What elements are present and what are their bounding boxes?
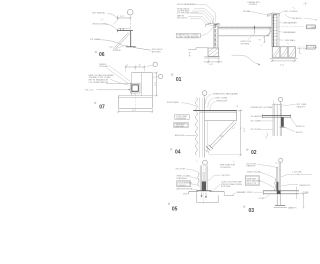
detail 07 lower leader arrow — [97, 89, 128, 91]
svg-text:ROOF MEMBRANE: ROOF MEMBRANE — [177, 3, 196, 6]
svg-text:2'-6": 2'-6" — [244, 128, 246, 132]
svg-text:WD BLOCKING: WD BLOCKING — [93, 24, 108, 26]
svg-text:STL ANGLE: STL ANGLE — [251, 115, 263, 118]
detail 01 left wall hatch — [214, 25, 219, 47]
detail 05 grade left — [183, 192, 189, 194]
detail 03 keynote bubble — [279, 158, 283, 162]
detail 01 left footing base lines — [204, 57, 220, 58]
detail 02 stiffener base tick — [280, 126, 286, 128]
svg-text:1'-2": 1'-2" — [132, 110, 136, 112]
svg-text:8": 8" — [139, 65, 141, 67]
detail 04 diagonal strut — [210, 121, 237, 148]
svg-text:BOLTS: BOLTS — [296, 132, 303, 134]
detail 07 plan left edge — [117, 96, 119, 109]
svg-text:EXIST WALL: EXIST WALL — [167, 101, 180, 104]
svg-text:MEMBRANE: MEMBRANE — [284, 31, 297, 34]
svg-text:04: 04 — [175, 149, 181, 155]
detail 02 post — [273, 105, 281, 136]
detail 02 break scallops — [266, 133, 268, 139]
detail 06 wood blocking — [118, 27, 131, 29]
detail 04 left boxed note 2 — [174, 122, 188, 127]
detail 06 steel web — [130, 31, 132, 47]
svg-text:STL PIPE: STL PIPE — [243, 192, 253, 194]
svg-text:CANOPY: CANOPY — [297, 105, 306, 108]
detail 05 sleeve lines below plate — [202, 192, 206, 196]
detail 06 steel top flange — [117, 30, 133, 32]
detail 07 plan right edge — [151, 73, 153, 109]
svg-text:2'-0": 2'-0" — [120, 16, 124, 18]
svg-text:ANCHOR RODS: ANCHOR RODS — [177, 187, 193, 190]
detail 04 canopy deck lower — [200, 111, 237, 113]
detail 03 post lower — [277, 194, 280, 205]
detail 01 top mid leader — [247, 11, 270, 15]
detail 03 cross arm end ticks — [263, 190, 265, 195]
svg-text:CMU WALL: CMU WALL — [285, 39, 297, 42]
detail 01 left bottom dim — [208, 58, 218, 63]
detail 06 dimension line — [118, 16, 131, 20]
detail 07 right dim — [155, 73, 157, 96]
detail 02 beam end ticks — [262, 114, 290, 118]
detail 06 keynote bubble — [127, 9, 133, 15]
svg-text:1/2" PROTECTION BD: 1/2" PROTECTION BD — [177, 12, 199, 14]
detail 07 plan verticals — [132, 73, 142, 96]
detail 01 left wall core — [214, 25, 216, 48]
detail 02 keynote bubble — [278, 97, 282, 101]
svg-text:ROD TYP: ROD TYP — [247, 183, 257, 185]
svg-text:07: 07 — [99, 104, 105, 110]
detail 01 right parapet coping — [268, 13, 280, 17]
detail 01 leaders from left labels — [196, 5, 216, 22]
detail 03 right upper leader — [281, 184, 298, 186]
svg-text:COL PENETRATION: COL PENETRATION — [89, 81, 109, 84]
detail 03 boxed note — [245, 176, 259, 186]
detail 06 leader 3 — [101, 40, 126, 47]
detail 01 cant strip — [267, 31, 272, 36]
svg-text:SSM ROOF: SSM ROOF — [216, 101, 228, 103]
detail 01 long curved leader — [232, 55, 259, 64]
detail 06 small leader top — [113, 20, 118, 24]
detail 01 hanger leader — [248, 33, 255, 39]
detail 01 bond beam hatch — [273, 47, 296, 57]
detail 05 trough — [197, 192, 218, 202]
detail 01 small tick — [261, 45, 263, 46]
svg-text:SSM BOOT: SSM BOOT — [299, 185, 311, 187]
detail 05 small mark — [196, 160, 198, 162]
detail 01 right wall joints — [272, 18, 278, 47]
svg-text:01: 01 — [176, 77, 182, 83]
detail 05 pedestal top right — [210, 191, 225, 193]
svg-text:4" MIN: 4" MIN — [302, 192, 309, 194]
detail 01 left parapet wall faces — [213, 24, 218, 48]
detail 05 keynote bubble — [203, 160, 208, 165]
detail 07 plan outline top — [132, 72, 153, 74]
detail 03 cross arm bottom — [264, 193, 300, 195]
detail 04 keynote bubble — [202, 91, 207, 96]
detail 04 canopy deck top — [193, 109, 236, 111]
detail 03 post upper — [277, 162, 281, 190]
detail 01 right label row 2 — [285, 15, 292, 18]
detail 06 deck line right — [133, 47, 151, 50]
detail 05 pedestal top left — [189, 191, 198, 193]
svg-text:T.O.WALL: T.O.WALL — [307, 26, 317, 29]
svg-text:1'-0": 1'-0" — [209, 64, 213, 66]
svg-text:SSM COLLAR: SSM COLLAR — [247, 170, 261, 173]
detail 04 right dim line — [240, 110, 242, 155]
svg-text:TYP: TYP — [109, 47, 114, 49]
svg-text:MTL FASCIA: MTL FASCIA — [93, 11, 106, 14]
svg-text:KICKER: KICKER — [113, 50, 121, 52]
detail 01 right coping blocking — [273, 14, 277, 16]
detail 01 title dot — [171, 74, 173, 76]
detail 02 right beam tick line — [291, 117, 296, 125]
detail 07 upper-left horizontal — [106, 83, 132, 85]
detail 07 top dim line — [126, 66, 145, 68]
svg-text:03: 03 — [249, 208, 255, 214]
detail 04 title dot — [170, 149, 172, 151]
svg-text:STL POST: STL POST — [176, 168, 187, 170]
detail 06 leader 2 — [106, 24, 118, 30]
detail 05 grade right — [224, 192, 234, 196]
detail 07 leader to right bubble — [153, 76, 159, 78]
detail 02 beam bottom — [262, 116, 291, 118]
detail 01 right footing dim — [272, 59, 294, 62]
detail 03 centre knot — [277, 190, 281, 194]
svg-text:BEYOND: BEYOND — [152, 51, 161, 53]
detail 01 left footing step flashing — [188, 48, 208, 50]
detail 04 canopy beam outline — [205, 110, 237, 120]
detail 01 right wall hatch — [272, 20, 277, 43]
detail 01 bond beam CMU — [272, 47, 295, 57]
detail 07 column outer flash square — [130, 83, 140, 93]
svg-text:FOR SIZE: FOR SIZE — [221, 186, 231, 188]
svg-text:ANCHOR: ANCHOR — [175, 134, 185, 137]
detail 01 deck fastener ticks — [222, 27, 268, 29]
detail 07 plan bottom edge — [118, 107, 152, 109]
svg-text:CONT CLEAT EA SIDE: CONT CLEAT EA SIDE — [177, 35, 199, 38]
svg-text:PREFIN MTL FASCIA AND: PREFIN MTL FASCIA AND — [213, 93, 238, 96]
detail 06 bottom flange — [126, 46, 136, 48]
detail 04 left boxed note 1 — [175, 115, 190, 120]
detail 01 top right specks — [292, 1, 307, 8]
svg-text:8": 8" — [237, 106, 239, 108]
detail 01 membrane at wall — [267, 27, 271, 36]
svg-text:STL BEAM: STL BEAM — [90, 38, 100, 41]
detail 07 title dot — [94, 102, 96, 104]
detail 03 base plate — [275, 204, 285, 206]
detail 05 title dot — [168, 203, 170, 205]
detail 05 anchor sleeve dark — [202, 181, 206, 190]
svg-text:SOLDER: SOLDER — [99, 66, 108, 68]
svg-text:1'-4": 1'-4" — [280, 64, 284, 66]
detail 04 wall ledger marks — [206, 150, 208, 153]
detail 07 column dark square — [132, 85, 138, 91]
svg-text:WD BLKG: WD BLKG — [292, 18, 302, 20]
detail 01 ceiling line — [218, 35, 269, 37]
detail 01 left CMU block — [208, 48, 218, 56]
detail 04 small v tick — [232, 127, 235, 129]
detail 03 title dot — [243, 206, 245, 208]
detail 01 boxed note — [176, 33, 200, 38]
svg-text:SYSTEM: SYSTEM — [241, 43, 250, 45]
svg-text:02: 02 — [251, 150, 257, 156]
detail 06 leader 1 — [108, 13, 118, 18]
svg-text:FLASHING: FLASHING — [177, 177, 188, 180]
detail 04 wall inner lines — [198, 98, 200, 158]
detail 04 wall face line — [204, 98, 206, 158]
detail 07 keynote bubble top — [153, 62, 157, 66]
detail 07 bottom dim — [118, 110, 152, 112]
svg-text:STL COL: STL COL — [85, 90, 94, 92]
detail 01 hanger mark — [254, 26, 256, 29]
detail 03 dark sleeve — [276, 182, 278, 191]
detail 02 post cap — [273, 103, 282, 105]
detail 06 centerline from bubble — [130, 15, 132, 30]
svg-text:CONT CLEAT: CONT CLEAT — [214, 97, 228, 100]
svg-text:TOP NUT: TOP NUT — [221, 175, 231, 177]
svg-text:SLOPE: SLOPE — [243, 11, 251, 13]
svg-text:8": 8" — [259, 40, 261, 42]
detail 03 right arm end vertical — [296, 187, 298, 199]
detail 05 base plate — [197, 190, 212, 192]
detail 03 right dim — [299, 192, 307, 194]
detail 05 post centerline — [203, 165, 205, 204]
svg-text:STIFF PL: STIFF PL — [296, 126, 306, 128]
detail 06 title dot — [95, 51, 97, 53]
svg-text:AIR BARRIER: AIR BARRIER — [284, 22, 298, 25]
detail 02 bubble stem — [280, 102, 282, 115]
svg-text:06: 06 — [99, 52, 105, 58]
detail 07 keynote bubble right — [158, 74, 162, 78]
svg-text:STL POST: STL POST — [251, 129, 262, 131]
svg-text:1'-2": 1'-2" — [155, 82, 157, 86]
detail 07 roof edge lines — [118, 96, 152, 98]
detail 04 bubble stem — [204, 96, 206, 110]
detail 07 column centerline — [134, 93, 136, 109]
detail 01 bond beam base — [270, 57, 298, 59]
svg-text:COPING: COPING — [249, 4, 258, 6]
detail 01 elevation marker 1 — [279, 26, 307, 28]
svg-text:05: 05 — [172, 207, 178, 213]
detail 01 elevation marker 2 — [298, 46, 307, 48]
detail 06 end plate — [116, 29, 118, 32]
detail 01 right of wall bracket — [297, 48, 302, 54]
svg-text:B.O.DECK: B.O.DECK — [307, 47, 318, 49]
detail 01 boxed note leader — [201, 27, 213, 36]
detail 07 note leader — [111, 79, 129, 85]
svg-text:1 1/2" DIA: 1 1/2" DIA — [292, 171, 302, 174]
detail 05 wavy flashing — [198, 172, 200, 185]
detail 03 wavy flashing — [275, 178, 276, 191]
svg-text:BASE PL: BASE PL — [288, 206, 298, 209]
detail 01 left CMU hatch — [208, 48, 218, 56]
svg-text:FLASHING: FLASHING — [176, 117, 187, 120]
detail 01 roof deck lines — [218, 26, 271, 28]
detail 02 beam top — [262, 115, 291, 117]
detail 06 diagonal kicker — [113, 32, 129, 49]
detail 06 dimension ticks — [117, 17, 132, 19]
detail 05 boxed note — [177, 181, 191, 187]
detail 06 title leader curve — [116, 46, 128, 49]
svg-text:6": 6" — [126, 65, 128, 67]
detail 07 leaders upper — [107, 66, 131, 84]
detail 04 wall break wavy edge — [196, 98, 198, 156]
svg-text:STL TUBE: STL TUBE — [251, 121, 261, 123]
svg-text:CONT: CONT — [259, 198, 266, 200]
detail 01 right parapet wall faces — [272, 14, 278, 47]
detail 04 strut lower connection — [206, 145, 213, 151]
svg-text:LOCATION: LOCATION — [220, 166, 231, 169]
detail 01 right wall dim — [263, 37, 265, 43]
svg-text:MTL COPING: MTL COPING — [285, 11, 298, 13]
svg-text:PAINTED: PAINTED — [247, 165, 256, 168]
detail 03 small tick near bubble — [275, 162, 278, 164]
detail 02 title dot — [247, 149, 249, 151]
detail 02 stiffener bar — [281, 117, 284, 126]
detail 05 post — [200, 165, 207, 190]
detail 04 dim bottom extension — [209, 154, 243, 156]
svg-text:TYP: TYP — [220, 136, 225, 138]
detail 03 cross arm top — [264, 190, 300, 192]
svg-text:GROUT: GROUT — [179, 185, 187, 187]
svg-text:MTL DECK: MTL DECK — [177, 18, 188, 20]
svg-text:BACKER: BACKER — [176, 125, 185, 128]
detail 07 small mark below square — [134, 93, 136, 95]
detail 01 left parapet coping — [206, 23, 219, 27]
